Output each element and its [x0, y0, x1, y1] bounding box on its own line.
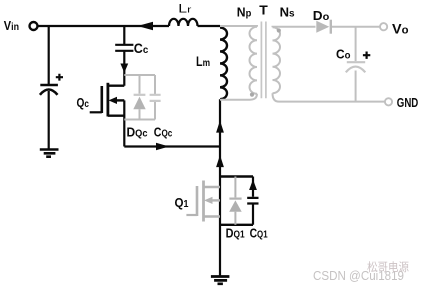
- diode Do: [316, 21, 329, 33]
- svg-text:Cc: Cc: [134, 41, 149, 56]
- wire top rail: [38, 25, 220, 27]
- arrow up node upper: [216, 121, 224, 133]
- ground left: [40, 150, 59, 157]
- wire main vertical node: [219, 99, 221, 275]
- arrow down on Cc branch: [120, 64, 128, 73]
- transformer primary wire bottom: [220, 94, 257, 100]
- capacitor Cc: [115, 45, 133, 51]
- capacitor Co: [347, 61, 365, 63]
- transformer core: [261, 22, 266, 99]
- capacitor Cin plus sign: [56, 74, 63, 81]
- transistor Q1: [186, 181, 220, 222]
- winding Np: [250, 27, 258, 94]
- svg-text:T: T: [259, 3, 268, 18]
- diode DQc: [139, 75, 141, 120]
- arrow up CQ1 branch: [249, 180, 257, 191]
- diode DQ1: [234, 177, 236, 225]
- transformer primary wire top: [220, 25, 257, 28]
- wire Cc drop: [123, 26, 125, 86]
- inductor Lm: [220, 28, 227, 100]
- arrow up node lower: [216, 155, 224, 167]
- polarity dot Ns: [277, 28, 281, 32]
- secondary wire bottom: [273, 93, 385, 101]
- svg-text:Co: Co: [336, 46, 351, 61]
- Vo terminal: [380, 23, 387, 30]
- winding Ns: [273, 27, 281, 93]
- wire Qc source to node: [124, 145, 220, 147]
- svg-text:Do: Do: [313, 8, 330, 23]
- wire Vin drop: [48, 26, 50, 84]
- GND terminal: [385, 98, 392, 105]
- inductor Lr: [169, 19, 198, 26]
- Vin terminal: [30, 22, 38, 30]
- capacitor CQc: [154, 75, 156, 120]
- capacitor Co plus sign: [363, 52, 370, 59]
- svg-text:Vin: Vin: [4, 18, 19, 33]
- secondary wire top: [273, 26, 380, 29]
- capacitor CQ1: [252, 177, 254, 225]
- wire Co drop: [355, 27, 357, 102]
- svg-text:松哥电源: 松哥电源: [367, 260, 409, 274]
- svg-text:Lm: Lm: [196, 54, 210, 69]
- svg-text:Lr: Lr: [178, 2, 191, 16]
- polarity dot Np: [250, 93, 254, 97]
- arrow left on top rail: [138, 22, 154, 30]
- arrow right on source wire: [156, 143, 169, 151]
- capacitor Cin: [40, 84, 58, 87]
- svg-text:GND: GND: [397, 95, 419, 110]
- transistor Qc: [90, 83, 125, 147]
- snubber box Q1 bottom: [220, 224, 253, 226]
- wire Cin to ground: [48, 91, 50, 149]
- snubber box Q1 top: [220, 175, 253, 177]
- snubber box DQc CQc: [124, 75, 155, 120]
- ground bottom: [211, 277, 230, 284]
- svg-text:Qc: Qc: [77, 95, 90, 110]
